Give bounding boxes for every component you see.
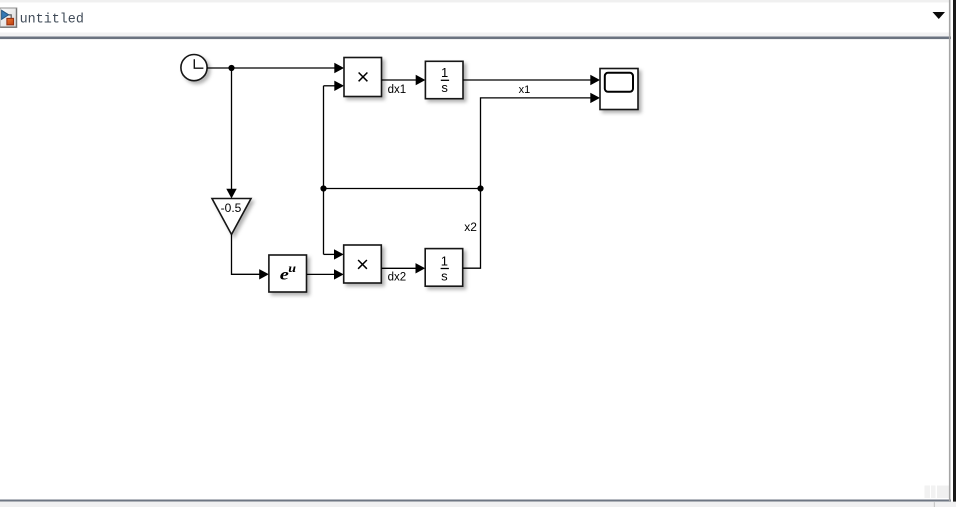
svg-text:untitled: untitled (20, 13, 84, 28)
integrator block 1 (425, 61, 463, 98)
tab dropdown arrow (933, 12, 946, 19)
clock source block (181, 55, 207, 81)
tab bar dark divider line (0, 37, 951, 40)
svg-text:s: s (441, 268, 448, 283)
wire integrator1 to scope input1 (net x1) (463, 75, 600, 85)
svg-text:s: s (441, 80, 448, 95)
wire gain to exp block (232, 235, 269, 280)
junction node left on x2 net (320, 185, 326, 191)
wire junction down to gain (226, 68, 236, 199)
scrollbar corner block 2 (931, 486, 936, 499)
scrollbar corner block 1 (925, 486, 931, 499)
model icon (simulink tab icon) (0, 8, 17, 28)
wire clock to product1 input1 (207, 63, 344, 73)
svg-text:-0.5: -0.5 (221, 201, 242, 215)
wire x2 vertical branch (323, 86, 325, 255)
product block 2 (344, 245, 382, 283)
scope block (600, 69, 638, 110)
junction node right on x2 net (477, 185, 483, 191)
wire exp to product2 input2 (307, 269, 344, 279)
svg-text:1: 1 (441, 253, 448, 268)
bottom status strip (0, 502, 956, 507)
arrowhead scope input2 (590, 93, 600, 103)
gain block -0.5 (212, 199, 251, 235)
wire branch to product2 input1 (324, 249, 344, 259)
wire product1 to integrator1 (382, 75, 426, 85)
math function block e^u (269, 255, 307, 292)
svg-text:1: 1 (441, 65, 448, 80)
tab bar light strip (0, 33, 951, 37)
svg-text:x2: x2 (464, 220, 477, 234)
wire x2 horizontal branch (324, 188, 481, 190)
product block 1 (344, 58, 382, 97)
bottom divider line (0, 500, 951, 502)
junction node at clock branch (228, 65, 234, 71)
bottom status tick (934, 502, 935, 507)
wire branch to product1 input2 (324, 81, 345, 91)
right window dark edge (953, 0, 956, 502)
svg-text:dx1: dx1 (388, 84, 407, 96)
wire integrator2 up to scope input2 (net x2) (463, 98, 591, 268)
wire product2 to integrator2 (381, 263, 425, 273)
svg-text:dx2: dx2 (388, 272, 407, 284)
integrator block 2 (425, 249, 463, 287)
top window edge strip (0, 0, 950, 3)
svg-text:x1: x1 (519, 84, 531, 96)
scrollbar corner block 3 (937, 486, 950, 499)
right canvas border line (949, 0, 951, 501)
svg-text:u: u (288, 262, 296, 275)
